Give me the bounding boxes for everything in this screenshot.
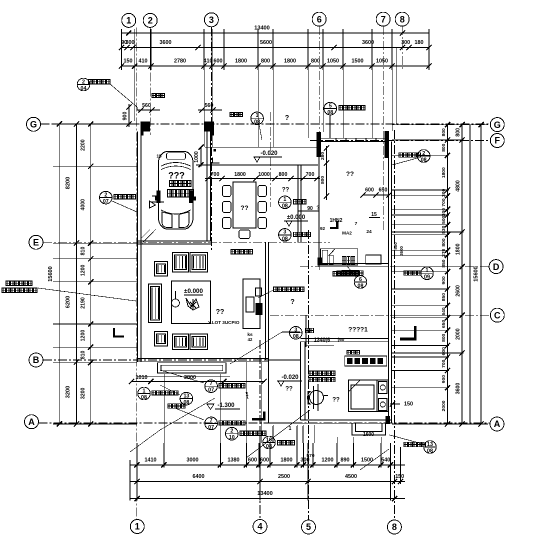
post hall SW corner thick L bbox=[252, 412, 266, 421]
arrow door entry bbox=[246, 392, 292, 432]
text ? mid-right bbox=[290, 299, 294, 306]
svg-text:150: 150 bbox=[124, 59, 133, 65]
svg-text:500: 500 bbox=[441, 215, 447, 223]
diag leader bottom-left bbox=[130, 398, 215, 452]
svg-text:700: 700 bbox=[211, 172, 220, 178]
svg-text:E: E bbox=[33, 238, 39, 248]
svg-text:1380: 1380 bbox=[228, 458, 240, 464]
svg-text:7: 7 bbox=[210, 381, 213, 387]
detail circle 13/08 bbox=[160, 385, 193, 408]
grid bubble 8 bottom bbox=[387, 520, 401, 534]
living sofa left long bbox=[149, 284, 162, 323]
svg-text:09: 09 bbox=[424, 275, 430, 281]
grid bubble D right bbox=[489, 260, 503, 274]
detail circle 5/08 bbox=[324, 102, 365, 138]
svg-text:540: 540 bbox=[381, 458, 390, 464]
svg-text:2500: 2500 bbox=[278, 474, 290, 480]
svg-text:3: 3 bbox=[283, 230, 286, 236]
detail circle 16/08 bbox=[263, 436, 295, 450]
svg-text:900: 900 bbox=[441, 276, 447, 284]
axis line C horizontal bbox=[270, 314, 490, 316]
axis line 8 vertical main bbox=[393, 130, 395, 520]
svg-text:15: 15 bbox=[371, 212, 377, 218]
svg-text:?: ? bbox=[290, 299, 294, 306]
svg-text:07: 07 bbox=[103, 199, 109, 205]
svg-text:890: 890 bbox=[341, 458, 350, 464]
svg-text:C: C bbox=[494, 310, 501, 320]
bath shower unit bbox=[317, 249, 357, 266]
svg-text:???: ??? bbox=[168, 171, 185, 181]
right chain line extra bbox=[469, 125, 471, 424]
grid bubble E left bbox=[29, 235, 43, 249]
svg-text:1: 1 bbox=[126, 16, 131, 26]
detail circle 1/08 bbox=[279, 196, 306, 210]
svg-text:1800: 1800 bbox=[284, 59, 296, 65]
detail circle 1/08 bbox=[251, 112, 264, 140]
dim 1000 vertical dining bbox=[194, 145, 204, 168]
svg-text:3600: 3600 bbox=[456, 383, 462, 395]
bath west jamb post bbox=[317, 132, 322, 157]
axis line 7 vertical bbox=[382, 26, 384, 230]
detail circle 3/08 bbox=[279, 229, 311, 243]
grid bubble 8 top bbox=[395, 12, 409, 26]
top dimension extension lines bbox=[122, 29, 430, 124]
svg-text:3200: 3200 bbox=[81, 387, 87, 399]
svg-text:??: ?? bbox=[216, 309, 225, 316]
text ks bbox=[247, 332, 253, 342]
texts right margin small bbox=[393, 242, 404, 256]
detail circle 1/09 bbox=[404, 267, 433, 281]
svg-text:2600: 2600 bbox=[399, 246, 404, 256]
svg-text:8: 8 bbox=[392, 522, 397, 532]
level mark -0.020 bottom bbox=[277, 375, 302, 393]
bath window mullions bbox=[336, 138, 376, 142]
svg-text:????1: ????1 bbox=[348, 327, 368, 334]
svg-text:1050: 1050 bbox=[327, 59, 339, 65]
svg-text:560: 560 bbox=[205, 103, 214, 109]
svg-text:1: 1 bbox=[426, 268, 429, 274]
svg-text:600: 600 bbox=[441, 347, 447, 355]
svg-text:800: 800 bbox=[441, 128, 447, 136]
svg-text:08: 08 bbox=[421, 157, 427, 163]
svg-text:810: 810 bbox=[81, 350, 87, 359]
svg-text:900: 900 bbox=[441, 375, 447, 383]
svg-text:07: 07 bbox=[208, 425, 214, 431]
dimension chain top row 3 bbox=[119, 59, 432, 69]
svg-text:?: ? bbox=[285, 115, 289, 122]
texts hall bbox=[307, 206, 380, 236]
svg-text:5: 5 bbox=[306, 522, 311, 532]
thick L mark near hall bbox=[330, 221, 338, 229]
svg-text:6400: 6400 bbox=[193, 474, 205, 480]
svg-text:1200: 1200 bbox=[81, 330, 87, 342]
dimension chain top row 2 bbox=[119, 40, 432, 50]
svg-text:850: 850 bbox=[441, 293, 447, 301]
svg-text:500: 500 bbox=[393, 242, 398, 250]
svg-text:±0.000: ±0.000 bbox=[287, 215, 306, 221]
dim 560 left jamb bbox=[137, 103, 160, 113]
right dimension chain outer 15600 bbox=[473, 122, 483, 427]
svg-text:2: 2 bbox=[422, 151, 425, 157]
living sofa bottom pair bbox=[173, 334, 208, 350]
svg-text:650: 650 bbox=[379, 188, 388, 194]
bath door labels bbox=[337, 271, 363, 275]
grid bubble 6 top bbox=[312, 12, 326, 26]
svg-text:1500: 1500 bbox=[361, 458, 373, 464]
dim vertical bath 280 800 bbox=[320, 145, 329, 200]
svg-text:07: 07 bbox=[208, 388, 214, 394]
grid bubble 2 top bbox=[143, 13, 157, 27]
svg-text:3: 3 bbox=[209, 15, 214, 25]
svg-text:3200: 3200 bbox=[66, 386, 72, 398]
wall dining north bay bbox=[196, 147, 318, 165]
wall living south on B bbox=[138, 359, 269, 362]
svg-text:08: 08 bbox=[183, 400, 189, 406]
grid bubble 5 bottom bbox=[302, 520, 316, 534]
right dimension chain middle bbox=[456, 122, 465, 427]
svg-text:1200: 1200 bbox=[81, 264, 87, 276]
svg-text:??: ?? bbox=[346, 171, 354, 178]
left dimension chain middle bbox=[66, 121, 80, 426]
detail circle 2/04 bbox=[77, 78, 139, 113]
svg-text:800: 800 bbox=[441, 143, 447, 151]
wall hall south segment bbox=[266, 359, 301, 361]
svg-text:(60: (60 bbox=[338, 337, 345, 342]
wall bedroom north bbox=[301, 339, 389, 342]
grid2 small label bbox=[152, 94, 164, 98]
svg-text:640: 640 bbox=[441, 307, 447, 315]
svg-text:15600: 15600 bbox=[473, 266, 479, 282]
svg-text:1200: 1200 bbox=[322, 458, 334, 464]
text ?? hall upper bbox=[282, 188, 290, 194]
svg-text:150: 150 bbox=[404, 402, 413, 408]
grid bubble 1 bottom bbox=[130, 520, 144, 534]
svg-text:A: A bbox=[494, 419, 501, 429]
svg-text:1000: 1000 bbox=[258, 172, 270, 178]
porch slab bottom-left bbox=[158, 363, 226, 373]
svg-text:800: 800 bbox=[320, 176, 326, 184]
dim 560 right jamb bbox=[198, 103, 222, 113]
svg-text:280: 280 bbox=[320, 152, 326, 160]
grid bubble 3 top bbox=[204, 13, 218, 27]
dimension chain bottom row 3 13400 bbox=[130, 491, 405, 501]
svg-text:08: 08 bbox=[427, 448, 433, 454]
dim 15 at car bbox=[156, 154, 162, 159]
svg-text:300: 300 bbox=[126, 40, 135, 46]
svg-text:1410: 1410 bbox=[145, 458, 157, 464]
svg-text:800: 800 bbox=[279, 172, 288, 178]
svg-text:530: 530 bbox=[441, 225, 447, 233]
wall living east bbox=[266, 242, 269, 360]
wardrobe small label bbox=[347, 351, 359, 355]
svg-text:2000: 2000 bbox=[441, 400, 447, 411]
grid bubble 7 top bbox=[376, 12, 390, 26]
svg-text:-0.020: -0.020 bbox=[260, 151, 278, 157]
svg-text:650: 650 bbox=[441, 319, 447, 327]
car in garage bbox=[150, 152, 197, 230]
wall garage east bbox=[207, 132, 211, 241]
svg-text:600: 600 bbox=[248, 458, 257, 464]
svg-text:4500: 4500 bbox=[345, 474, 357, 480]
grid bubble C right bbox=[490, 308, 504, 322]
bedroom dim 150 bbox=[390, 401, 413, 407]
dimension chain bottom row 2 bbox=[130, 474, 405, 484]
svg-text:4000: 4000 bbox=[81, 199, 87, 211]
detail circle 7/07 bbox=[175, 408, 245, 431]
grid bubble A right bbox=[490, 417, 504, 431]
grid bubble G right bbox=[490, 118, 504, 132]
svg-text:13400: 13400 bbox=[257, 491, 273, 497]
texts bath ?? bbox=[346, 171, 354, 178]
svg-text:810: 810 bbox=[81, 247, 87, 256]
grid bubble 4 bottom bbox=[253, 520, 267, 534]
svg-text:2780: 2780 bbox=[174, 59, 186, 65]
bedroom ?? bbox=[332, 398, 340, 404]
wall bath north bbox=[317, 138, 389, 141]
axis line E horizontal bbox=[43, 241, 330, 243]
svg-text:D: D bbox=[493, 262, 500, 272]
svg-text:700: 700 bbox=[441, 198, 447, 206]
thick L mark right of C bbox=[400, 326, 417, 340]
svg-text:4800: 4800 bbox=[456, 180, 462, 192]
axis line 6 vertical bbox=[318, 26, 320, 270]
right extension lines bbox=[392, 125, 488, 424]
svg-text:1800: 1800 bbox=[281, 458, 293, 464]
bay black dot bbox=[214, 149, 217, 152]
svg-text:1: 1 bbox=[143, 388, 146, 394]
svg-text:2: 2 bbox=[230, 429, 233, 435]
svg-text:2200: 2200 bbox=[81, 139, 87, 151]
svg-text:7: 7 bbox=[355, 221, 358, 227]
svg-text:-1.300: -1.300 bbox=[217, 403, 235, 409]
svg-text:2000: 2000 bbox=[456, 328, 462, 340]
svg-text:2190: 2190 bbox=[81, 297, 87, 309]
svg-text:-0.020: -0.020 bbox=[281, 375, 299, 381]
svg-text:13: 13 bbox=[427, 442, 433, 448]
svg-text:??: ?? bbox=[285, 387, 293, 393]
svg-text:600: 600 bbox=[260, 458, 269, 464]
living ?? bbox=[216, 309, 225, 316]
detail circle 6/08 bbox=[333, 266, 367, 289]
svg-text:1600: 1600 bbox=[363, 432, 374, 438]
svg-text:5: 5 bbox=[329, 103, 332, 109]
svg-text:3000: 3000 bbox=[187, 458, 199, 464]
svg-text:3: 3 bbox=[294, 328, 297, 334]
porch lower edge line bbox=[137, 376, 230, 378]
svg-text:6: 6 bbox=[359, 277, 362, 283]
living label east bbox=[258, 287, 304, 298]
wall west exterior bbox=[138, 132, 142, 363]
axis line 2 vertical bbox=[149, 27, 151, 135]
living corner table bottom bbox=[155, 332, 168, 347]
living label north bbox=[231, 250, 252, 254]
svg-text:1: 1 bbox=[283, 197, 286, 203]
svg-text:13400: 13400 bbox=[254, 26, 270, 32]
diag leader living to hall bbox=[230, 332, 300, 364]
svg-text:42: 42 bbox=[248, 337, 253, 342]
svg-text:800: 800 bbox=[456, 128, 462, 137]
detail circle 2/08 bbox=[392, 150, 430, 165]
axis line D horizontal bbox=[300, 266, 489, 268]
left dimension chain outer 15600 bbox=[48, 121, 62, 426]
detail circle 2/07 bbox=[100, 191, 138, 212]
level mark -1.300 bbox=[207, 403, 240, 410]
top small blob bbox=[230, 113, 242, 117]
dim 600 650 bath bbox=[360, 188, 391, 198]
svg-text:15: 15 bbox=[156, 154, 162, 159]
svg-text:??: ?? bbox=[241, 205, 249, 212]
svg-text:B: B bbox=[33, 355, 40, 365]
bottom dimension extension lines bbox=[130, 426, 401, 501]
svg-text:08: 08 bbox=[293, 334, 299, 340]
svg-text:1800: 1800 bbox=[234, 172, 246, 178]
svg-text:1340(6: 1340(6 bbox=[314, 338, 330, 344]
svg-text:92: 92 bbox=[320, 226, 326, 231]
garage door swing bbox=[142, 229, 157, 244]
svg-text:2600: 2600 bbox=[456, 285, 462, 297]
wall bedroom south on A bbox=[301, 420, 392, 423]
axis line 4 vertical bbox=[259, 340, 261, 520]
svg-text:13: 13 bbox=[183, 393, 189, 399]
left extension lines bbox=[53, 124, 137, 424]
column post grid2-G bbox=[141, 122, 151, 136]
axis line 8 vertical top bbox=[401, 26, 403, 70]
svg-text:1050: 1050 bbox=[376, 59, 388, 65]
svg-text:7: 7 bbox=[381, 14, 386, 24]
svg-text:2: 2 bbox=[148, 16, 153, 26]
bath label bbox=[342, 271, 359, 275]
svg-text:800: 800 bbox=[261, 59, 270, 65]
wall bath west bbox=[318, 141, 320, 266]
svg-text:4: 4 bbox=[257, 522, 262, 532]
bath tub bbox=[366, 255, 381, 264]
left margin labels bbox=[2, 281, 136, 301]
svg-text:700: 700 bbox=[306, 172, 315, 178]
axis line 5 vertical bbox=[308, 230, 310, 520]
svg-text:??: ?? bbox=[282, 188, 290, 194]
dimension chain top row total 13400 bbox=[122, 26, 430, 36]
svg-text:±0.000: ±0.000 bbox=[184, 288, 203, 295]
svg-text:04: 04 bbox=[81, 86, 87, 92]
bedroom wardrobe bbox=[345, 356, 387, 366]
dimension chain bottom row 1 bbox=[130, 453, 405, 468]
svg-text:G: G bbox=[494, 120, 501, 130]
svg-text:900: 900 bbox=[123, 112, 129, 121]
axis line F horizontal bbox=[310, 140, 490, 142]
svg-text:24: 24 bbox=[366, 229, 372, 235]
svg-text:08: 08 bbox=[282, 236, 288, 242]
grid bubble F right bbox=[490, 134, 504, 148]
svg-text:08: 08 bbox=[282, 204, 288, 210]
svg-text:1800: 1800 bbox=[441, 167, 447, 178]
axis line B horizontal bbox=[43, 359, 280, 361]
detail circle 13/08 bbox=[390, 435, 437, 454]
bedroom labels BD bbox=[309, 371, 335, 382]
text 1340 bedroom bbox=[306, 315, 345, 347]
stair guide lines bbox=[269, 360, 301, 423]
axis line 1 vertical bbox=[136, 27, 138, 519]
detail circle 1/08 bbox=[138, 387, 178, 401]
svg-text:1000: 1000 bbox=[194, 151, 200, 163]
detail circle 2/10 bbox=[226, 427, 266, 441]
dim row dining 700 1800 1000 bbox=[205, 172, 320, 181]
svg-text:410: 410 bbox=[139, 59, 148, 65]
svg-text:6: 6 bbox=[317, 14, 322, 24]
svg-text:1: 1 bbox=[135, 522, 140, 532]
svg-text:1010: 1010 bbox=[136, 375, 148, 381]
svg-text:3600: 3600 bbox=[160, 40, 172, 46]
living rug bbox=[171, 281, 210, 324]
dim 1010 3800 bbox=[129, 375, 267, 384]
svg-text:1: 1 bbox=[289, 426, 292, 432]
svg-text:8200: 8200 bbox=[66, 177, 72, 189]
grid bubble 1 top bbox=[122, 13, 136, 27]
svg-text:800: 800 bbox=[441, 238, 447, 246]
svg-text:700: 700 bbox=[441, 359, 447, 367]
svg-text:2: 2 bbox=[104, 192, 107, 198]
bottom long extension lines to walls bbox=[164, 362, 381, 443]
text ? top bbox=[285, 115, 289, 122]
svg-text:G: G bbox=[30, 120, 37, 130]
text ????1 bedroom bbox=[348, 327, 368, 334]
svg-text:1: 1 bbox=[256, 113, 259, 119]
bay L bracket bbox=[213, 158, 220, 164]
svg-text:1500: 1500 bbox=[352, 59, 364, 65]
svg-text:08: 08 bbox=[327, 110, 333, 116]
post bedroom SE bbox=[386, 416, 391, 424]
column post grid3-G bbox=[205, 122, 215, 136]
wall bedroom west bbox=[301, 342, 306, 421]
dim 900 left of grid1 bbox=[123, 104, 132, 127]
level mark ±0.000 hall bbox=[284, 215, 308, 226]
diag leader center-bottom bbox=[246, 410, 310, 458]
wall garage south on E bbox=[138, 241, 212, 244]
right dimension chain inner bbox=[441, 122, 450, 427]
svg-text:??: ?? bbox=[332, 398, 340, 404]
svg-text:10: 10 bbox=[229, 435, 235, 441]
svg-text:1HN2: 1HN2 bbox=[330, 218, 343, 224]
svg-text:800: 800 bbox=[441, 333, 447, 341]
bath east jamb post bbox=[385, 131, 390, 158]
svg-text:150: 150 bbox=[395, 474, 404, 480]
svg-text:5600: 5600 bbox=[260, 40, 272, 46]
axis line dining bay center bbox=[269, 112, 271, 207]
svg-text:600: 600 bbox=[214, 59, 223, 65]
detail circle 3/08 bbox=[290, 327, 314, 341]
svg-text:15600: 15600 bbox=[48, 266, 54, 282]
svg-text:600: 600 bbox=[365, 188, 374, 194]
axis line 3 vertical bbox=[210, 27, 212, 250]
pedestal basin bbox=[307, 384, 328, 411]
svg-text:08: 08 bbox=[358, 283, 364, 289]
living sofa top pair bbox=[173, 253, 208, 273]
svg-text:560: 560 bbox=[142, 103, 151, 109]
bedroom bed bbox=[348, 380, 388, 412]
grid bubble A left bbox=[25, 415, 39, 429]
wall east exterior bbox=[388, 141, 391, 423]
detail circle 7/07 bbox=[160, 370, 245, 394]
svg-text:1800: 1800 bbox=[235, 59, 247, 65]
thick L mark left margin bbox=[113, 328, 124, 338]
living tv cabinet bbox=[243, 279, 263, 329]
terrace steps bottom-right bbox=[352, 423, 386, 438]
svg-text:Y.LOT 3UCPIO: Y.LOT 3UCPIO bbox=[208, 320, 240, 325]
wall dining east bbox=[298, 165, 301, 242]
svg-text:08: 08 bbox=[141, 395, 147, 401]
svg-text:6200: 6200 bbox=[66, 296, 72, 308]
dining table bbox=[223, 182, 267, 239]
grid bubble G left bbox=[27, 117, 41, 131]
